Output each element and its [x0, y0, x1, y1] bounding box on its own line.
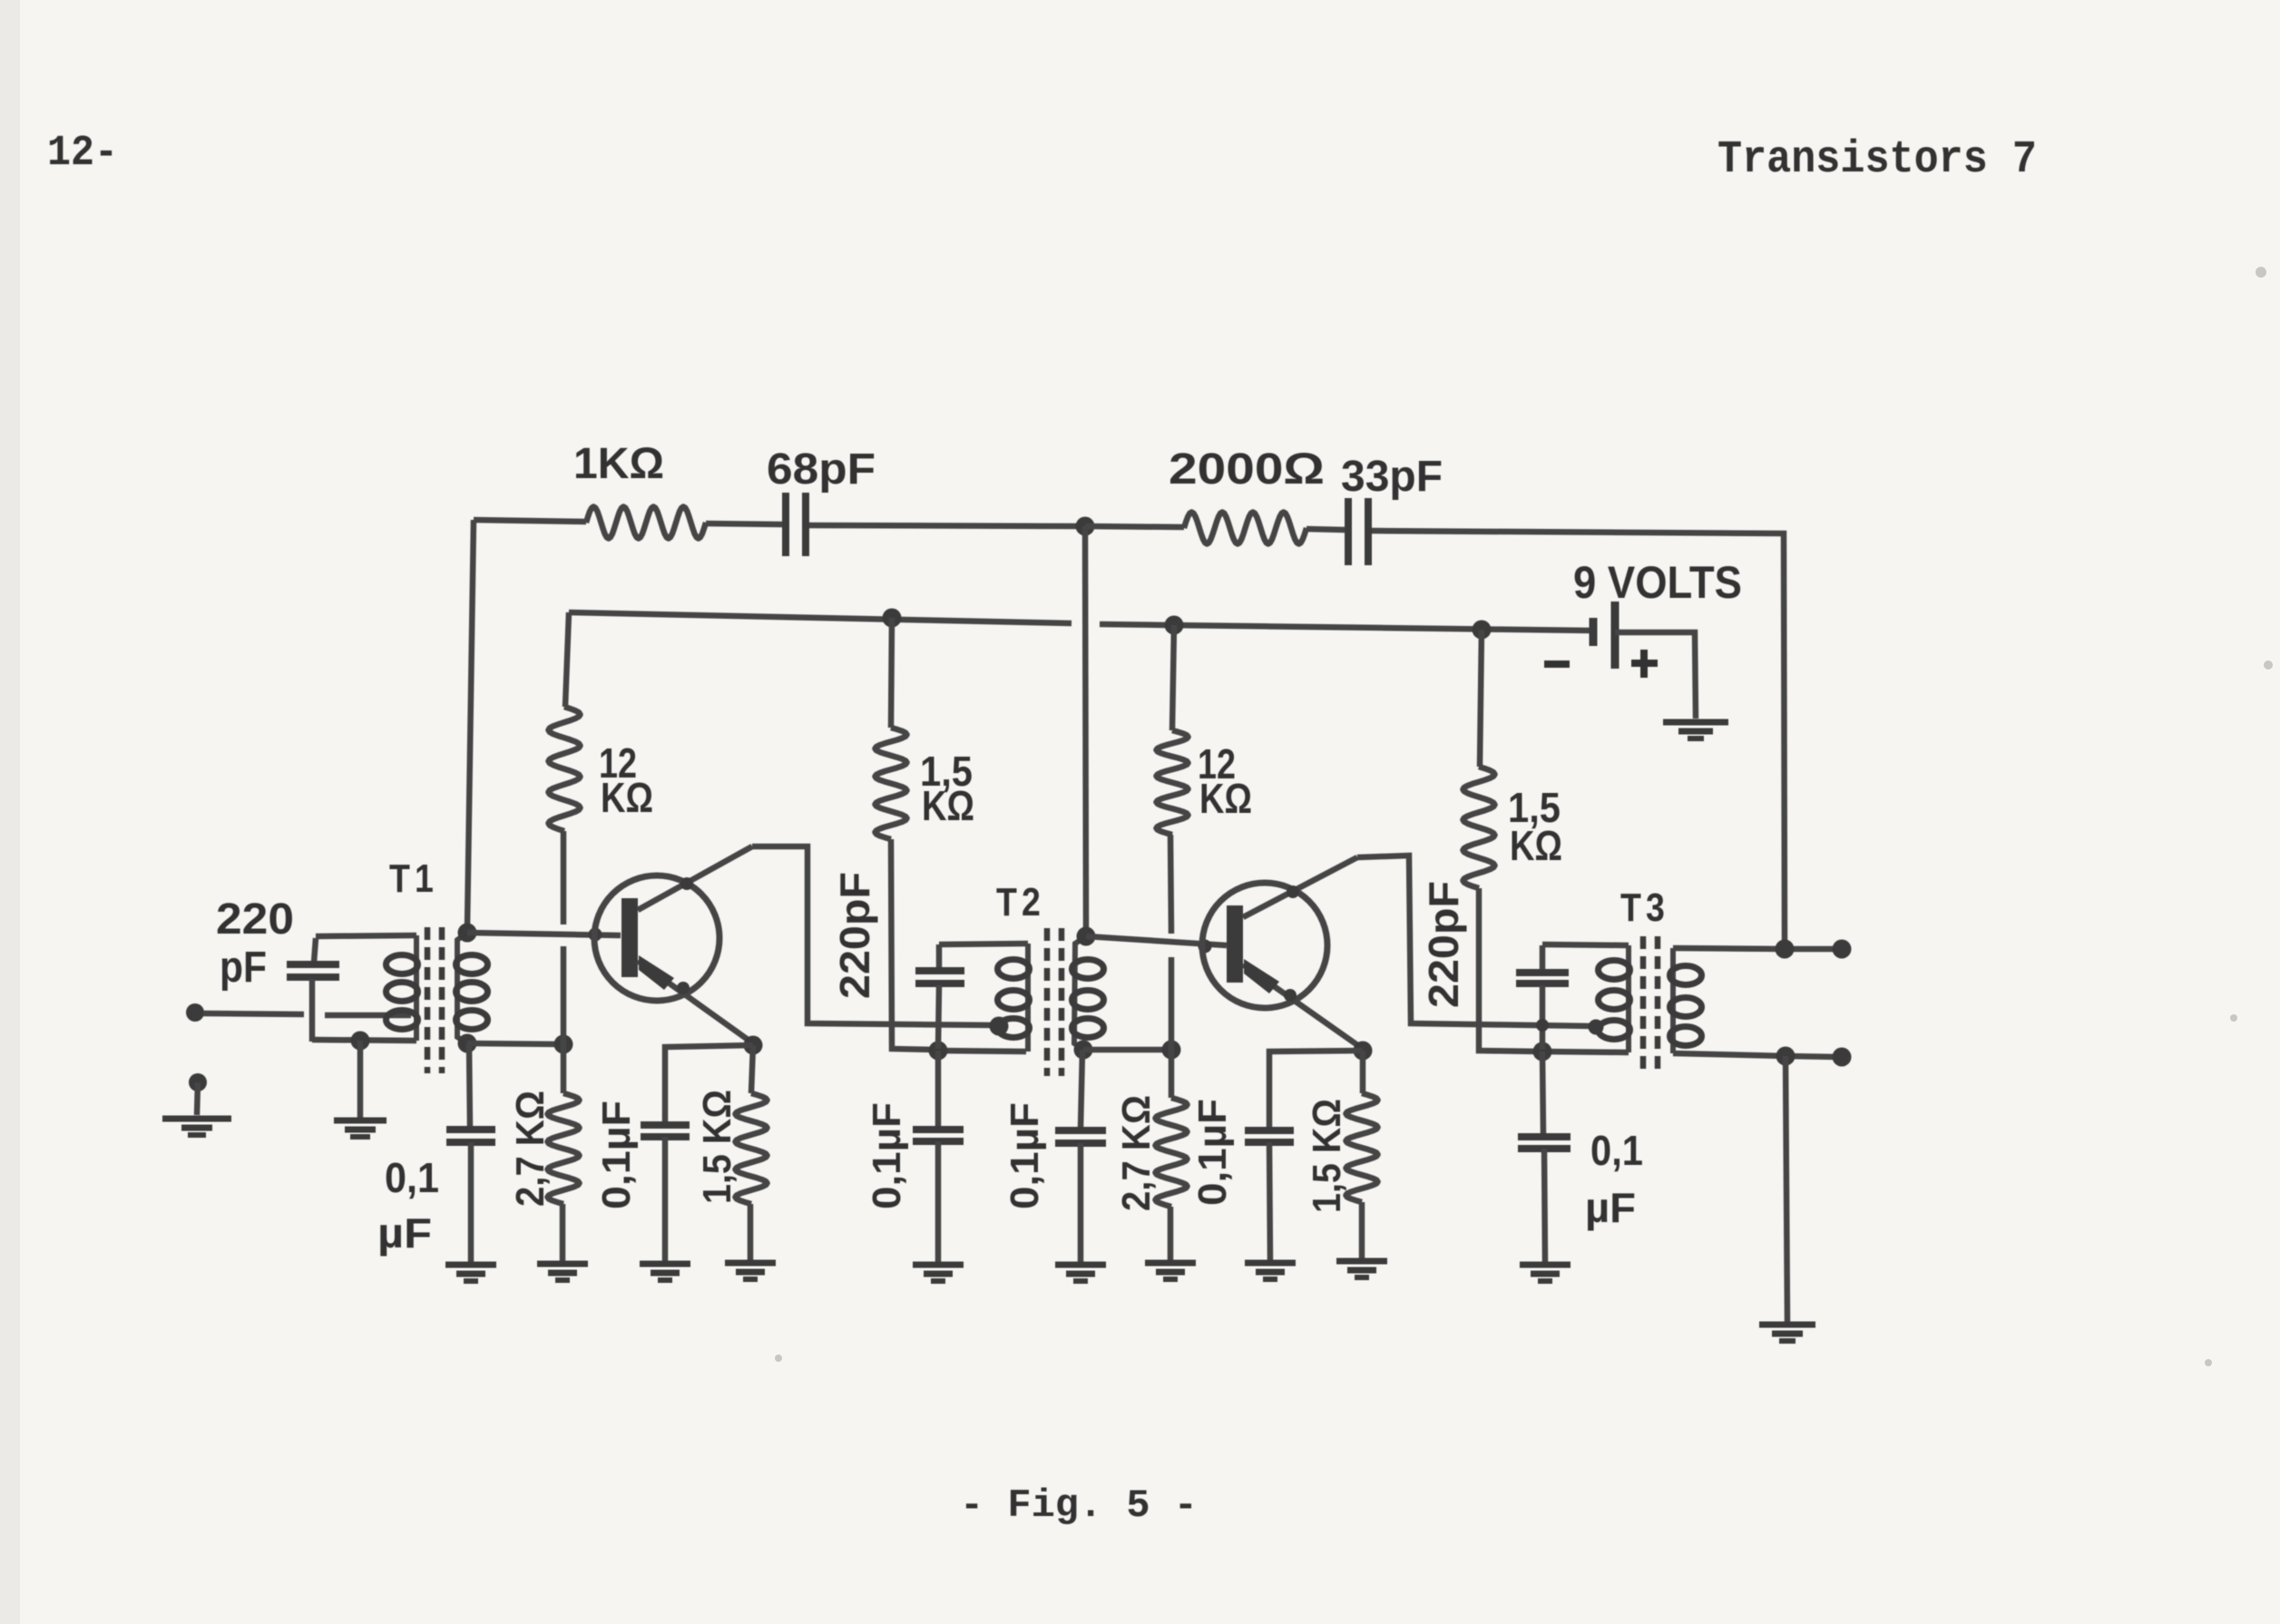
ground R11: [1336, 1258, 1387, 1265]
resistor R6 body: [736, 1093, 768, 1204]
node rail junction to R8: [1165, 616, 1184, 635]
transformer T2 secondary winding: [1074, 936, 1086, 1050]
capacitor C2 33pF: [1345, 498, 1352, 565]
node T3 tank bottom junction: [1533, 1042, 1552, 1061]
node T3 secondary top feedback junction: [1776, 940, 1795, 959]
transistor Q1 emitter lead with arrow wedge: [638, 961, 753, 1043]
ground C8: [1055, 1262, 1106, 1268]
wire T2 bias node to divider node stage 2: [1083, 1047, 1171, 1053]
capacitor C9 0.1uF emitter bypass plates: [1245, 1127, 1294, 1134]
svg-text:0,1µF: 0,1µF: [865, 1102, 909, 1209]
wire emitter node to C9: [1269, 1051, 1363, 1129]
wire emitter node to C5: [665, 1045, 753, 1125]
node T1 secondary bottom (bias node): [458, 1034, 477, 1053]
wire 9V supply rail left segment (with crossover break at interstage vertical): [569, 612, 1072, 623]
ground output: [1759, 1322, 1815, 1328]
transistor Q2 emitter lead with arrow wedge: [1243, 964, 1363, 1049]
capacitor C7 plates: [913, 1126, 964, 1133]
ground input: [162, 1116, 231, 1122]
capacitor C11 0.1uF decoupling lead: [1542, 1052, 1543, 1135]
ground T1 tank: [334, 1118, 387, 1124]
svg-text:µF: µF: [377, 1209, 432, 1257]
node T2 tank bottom junction: [929, 1042, 948, 1061]
wire battery positive to ground leg: [1615, 632, 1696, 719]
resistor R4 2.7 Kohm body: [548, 1093, 580, 1204]
svg-text:12-: 12-: [47, 130, 118, 178]
capacitor C9 lower lead: [1269, 1142, 1270, 1261]
node T1 secondary top (base node): [458, 924, 477, 943]
transistor Q2 collector lead: [1243, 857, 1357, 917]
capacitor C10 bottom lead: [1540, 985, 1546, 1050]
transformer T3 primary winding: [1626, 945, 1631, 1052]
svg-text:0,1µF: 0,1µF: [1190, 1099, 1235, 1206]
label battery minus sign: [1544, 660, 1570, 668]
capacitor C6 220pF T2 tank top lead: [936, 944, 943, 969]
capacitor C7 0.1uF decoupling lead: [935, 1051, 942, 1128]
node Q1 emitter at circle edge: [677, 982, 690, 994]
capacitor C6 bottom lead: [938, 985, 939, 1049]
wire T1 tank bottom: [312, 1040, 416, 1041]
resistor R10 body: [1463, 767, 1495, 888]
node Q1 emitter junction: [744, 1036, 763, 1055]
resistor R3 12 Kohm body: [549, 707, 581, 831]
node rail junction to R5: [883, 609, 902, 628]
svg-text:33pF: 33pF: [1341, 453, 1443, 501]
svg-text:9 VOLTS: 9 VOLTS: [1573, 557, 1742, 608]
svg-text:KΩ: KΩ: [922, 782, 974, 829]
svg-text:- Fig. 5 -: - Fig. 5 -: [960, 1483, 1198, 1529]
wire T1 tank bottom to ground: [357, 1041, 364, 1119]
transistor Q2 base bar: [1227, 905, 1243, 983]
resistor R8 12 Kohm upper lead: [1172, 625, 1174, 730]
resistor R2 2000 ohm: [1184, 513, 1306, 544]
svg-text:0,1: 0,1: [385, 1154, 439, 1201]
resistor R6 lower lead: [748, 1204, 754, 1261]
svg-text:1,5 KΩ: 1,5 KΩ: [1305, 1099, 1349, 1213]
label battery plus sign: [1631, 660, 1658, 667]
wire terminal 2 to ground: [197, 1082, 198, 1115]
wire Q2 collector to T3 primary tap: [1357, 856, 1593, 1026]
resistor R10 1.5 Kohm collector load upper lead: [1480, 630, 1482, 767]
svg-text:1,5 KΩ: 1,5 KΩ: [695, 1090, 739, 1204]
resistor R4 leads: [561, 1044, 567, 1093]
node Q2 collector at circle edge: [1287, 885, 1299, 898]
resistor R10 lower lead to T3 tank bottom: [1479, 888, 1540, 1052]
transformer T2 primary winding: [1025, 944, 1031, 1052]
capacitor C4 0.1uF bias bypass lead: [469, 1043, 470, 1128]
node rail junction to R10: [1473, 621, 1492, 640]
wire node A to R2: [1085, 526, 1184, 527]
wire input tap into T1 primary: [325, 1013, 411, 1019]
wire T2 tank top: [939, 944, 1028, 944]
node T2 secondary bottom: [1074, 1041, 1093, 1060]
transformer T1 core: [425, 927, 431, 1073]
svg-text:0,1: 0,1: [1590, 1127, 1643, 1174]
capacitor C1 68pF: [782, 493, 789, 556]
resistor R9 leads: [1169, 1050, 1175, 1098]
transformer T3 secondary winding: [1670, 948, 1676, 1053]
resistor R6 1.5 Kohm emitter lead: [751, 1045, 753, 1093]
resistor R9 2.7 Kohm body: [1156, 1098, 1188, 1207]
transistor Q2 body circle: [1202, 883, 1327, 1008]
resistor R11 body: [1346, 1093, 1378, 1202]
transistor Q1 base bar: [621, 898, 638, 977]
capacitor C3 220pF plates: [287, 961, 339, 968]
svg-text:0,1µF: 0,1µF: [594, 1101, 639, 1209]
resistor R11 1.5 Kohm emitter lead: [1360, 1051, 1366, 1093]
capacitor C3 220pF input tank top lead: [314, 938, 316, 963]
ground C5: [640, 1261, 690, 1267]
ground C11: [1520, 1262, 1571, 1268]
node T3 primary tap: [1589, 1020, 1604, 1035]
resistor R8 lower lead (break at base wire crossover): [1170, 835, 1171, 934]
wire 9V supply rail right segment: [1100, 624, 1592, 631]
transistor Q1 collector lead: [638, 846, 752, 910]
node bias divider stage 2: [1162, 1041, 1181, 1060]
wire T3 secondary bottom to output: [1673, 1053, 1838, 1057]
ground R9: [1145, 1260, 1196, 1267]
transformer T2 core: [1044, 928, 1051, 1076]
wire C2 to right corner and down to T3 secondary top: [1372, 531, 1785, 944]
battery BT1 positive plate: [1611, 602, 1619, 669]
node bias divider stage 1: [554, 1035, 573, 1054]
wire top feedback horizontal (left of R1): [474, 520, 586, 522]
resistor R8 body: [1157, 730, 1189, 835]
wire between R1 and C1: [706, 523, 782, 524]
resistor R3 12 Kohm lead from rail: [565, 612, 569, 707]
transformer T1 secondary winding: [457, 933, 467, 1043]
input terminal 2 (ground side): [189, 1073, 207, 1091]
ground R6: [725, 1260, 776, 1267]
svg-text:T2: T2: [996, 880, 1045, 925]
svg-text:220pF: 220pF: [1420, 881, 1467, 1008]
resistor R5 lower lead to T2 tank bottom: [891, 839, 935, 1050]
wire T2 tank bottom: [935, 1050, 1026, 1052]
transformer T1 primary winding: [414, 935, 419, 1041]
capacitor C10 plates: [1516, 969, 1569, 976]
wire Q2 base from T2 secondary top: [1086, 936, 1227, 945]
ground R4: [537, 1261, 588, 1267]
wire top feedback left vertical from corner to T1 secondary top: [467, 520, 474, 928]
node base wire at Q2 circle edge: [1199, 940, 1212, 954]
node T2 primary tap: [990, 1017, 1009, 1036]
wire Q1 collector to T2 primary tap: [752, 846, 996, 1025]
transistor Q1 body circle: [594, 876, 719, 1001]
capacitor C8 lower lead: [1078, 1143, 1084, 1263]
wire T1 tank top: [316, 935, 416, 936]
resistor R11 lower lead: [1359, 1202, 1365, 1259]
wire T3 tank bottom: [1540, 1052, 1629, 1052]
ground C7: [913, 1262, 964, 1268]
capacitor C11 plates: [1518, 1133, 1571, 1140]
svg-text:2000Ω: 2000Ω: [1169, 445, 1325, 494]
capacitor C11 lower lead: [1544, 1149, 1545, 1263]
wire T3 secondary bottom to ground: [1786, 1056, 1787, 1323]
svg-text:220: 220: [216, 895, 294, 944]
node T3 tank cap lead crossing blob: [1536, 1019, 1549, 1032]
input terminal 1 (signal): [186, 1003, 204, 1022]
svg-text:µF: µF: [1585, 1184, 1636, 1231]
node T1 tank bottom ground junction: [351, 1032, 370, 1051]
svg-text:KΩ: KΩ: [1199, 775, 1252, 822]
transformer T3 core: [1640, 936, 1647, 1069]
ground C9: [1245, 1260, 1296, 1267]
svg-text:0,1µF: 0,1µF: [1003, 1102, 1047, 1209]
capacitor C8 0.1uF bias bypass lead: [1081, 1050, 1082, 1129]
svg-text:KΩ: KΩ: [601, 774, 653, 821]
svg-text:2,7 KΩ: 2,7 KΩ: [508, 1091, 553, 1207]
wire C1 to node A: [809, 525, 1085, 526]
capacitor C4 lower lead: [468, 1142, 475, 1262]
ground C4: [445, 1262, 496, 1268]
capacitor C3 bottom lead: [309, 979, 316, 1042]
capacitor C4 plates: [446, 1126, 495, 1133]
svg-text:T1: T1: [389, 856, 438, 901]
wire interstage vertical node A down to T2 secondary top: [1085, 526, 1086, 932]
svg-text:220pF: 220pF: [831, 872, 878, 999]
node T2 secondary top: [1077, 927, 1096, 946]
resistor R5 1.5 Kohm collector load upper lead: [891, 618, 892, 728]
svg-text:68pF: 68pF: [767, 445, 876, 494]
wire Q1 base from T1 secondary top: [467, 933, 621, 935]
wire T1 bias node to divider node: [467, 1043, 563, 1044]
resistor R1 1 Kohm: [586, 507, 706, 539]
svg-text:pF: pF: [220, 944, 267, 992]
capacitor C5 0.1uF emitter bypass plates: [641, 1121, 690, 1129]
svg-text:2,7 KΩ: 2,7 KΩ: [1114, 1095, 1159, 1211]
output terminal 2: [1833, 1048, 1852, 1067]
wire between R2 and C2: [1306, 529, 1345, 530]
wire input terminal to tank crossing (break at tank left vertical): [203, 1013, 304, 1014]
wire T3 secondary top to output: [1673, 948, 1838, 949]
node Q2 emitter at circle edge: [1284, 989, 1297, 1002]
svg-text:Transistors 7: Transistors 7: [1717, 134, 2037, 186]
output terminal 1: [1833, 940, 1852, 959]
svg-text:T3: T3: [1620, 885, 1669, 930]
capacitor C5 lower lead: [662, 1137, 669, 1262]
capacitor C10 220pF T3 tank top lead: [1540, 945, 1546, 971]
resistor R3 lower lead (break at base wire crossover): [561, 831, 567, 925]
node Q1 collector at circle edge: [680, 877, 693, 890]
ground battery: [1663, 719, 1728, 726]
capacitor C7 lower lead: [935, 1141, 942, 1263]
node Q2 emitter junction: [1354, 1042, 1373, 1061]
resistor R5 body: [876, 728, 907, 839]
node T3 secondary bottom ground junction: [1776, 1047, 1796, 1066]
svg-text:KΩ: KΩ: [1510, 822, 1562, 869]
svg-text:1KΩ: 1KΩ: [573, 440, 664, 488]
wire T3 tank top: [1542, 944, 1629, 945]
node base wire at Q1 circle edge: [589, 928, 602, 942]
capacitor C6 plates: [915, 967, 964, 974]
capacitor C8 plates: [1055, 1127, 1106, 1134]
node A junction top wire to T2 secondary: [1076, 517, 1095, 536]
battery BT1 9 VOLTS negative plate: [1590, 618, 1598, 646]
